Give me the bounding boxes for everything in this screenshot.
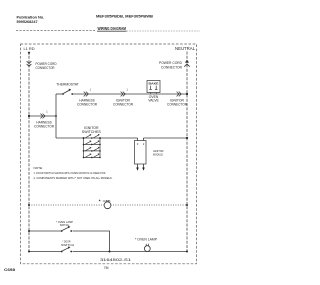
svg-text:BAKE: BAKE <box>149 81 159 85</box>
ignitor switch ladder rails <box>83 137 101 157</box>
svg-text:THERMOSTAT: THERMOSTAT <box>56 82 79 86</box>
ignitor connector 1 <box>113 88 134 106</box>
svg-text:MODULE: MODULE <box>153 153 163 157</box>
svg-text:SWITCH: SWITCH <box>61 243 74 247</box>
ignitor switches label <box>82 126 101 134</box>
oven lamp switch S1 <box>56 220 73 232</box>
svg-text:1: 1 <box>46 110 48 113</box>
svg-text:CONNECTOR: CONNECTOR <box>113 103 134 107</box>
svg-text:NOTE:: NOTE: <box>34 166 44 170</box>
diagram frame <box>21 44 197 264</box>
svg-text:VALVE: VALVE <box>148 99 159 103</box>
note text <box>34 166 113 180</box>
ignitor switch row 2 <box>83 140 101 145</box>
svg-text:L1 RD: L1 RD <box>24 47 35 51</box>
ignitor switch row 3 <box>83 147 101 152</box>
wire oven lamp switch rung <box>28 230 110 252</box>
power cord connector left <box>27 61 57 70</box>
ignitor switch row 4 <box>83 153 101 158</box>
svg-text:5995268247: 5995268247 <box>17 20 38 24</box>
ignitor switch row 1 <box>83 134 101 139</box>
wire ignitor switch line <box>56 137 187 139</box>
header model numbers <box>96 15 153 19</box>
svg-text:2. COMPONENTS MARKED WITH * NO: 2. COMPONENTS MARKED WITH * NOT USED ON … <box>34 176 113 180</box>
wire door switch rung <box>28 251 188 253</box>
harness connector (main) <box>34 110 55 128</box>
spark electrodes <box>136 164 145 171</box>
svg-text:3164502-S1: 3164502-S1 <box>100 258 131 262</box>
harness connector (top line) <box>77 88 98 106</box>
svg-text:CONNECTOR: CONNECTOR <box>167 103 188 107</box>
svg-text:CONNECTOR: CONNECTOR <box>34 125 55 129</box>
svg-text:1: 1 <box>126 88 128 91</box>
junction top line / neutral rail <box>186 93 188 95</box>
svg-text:7M: 7M <box>104 266 109 270</box>
junction ignitor line / neutral rail <box>186 137 188 139</box>
wire clock line (dotted) <box>28 204 188 206</box>
svg-text:NEUTRAL: NEUTRAL <box>175 46 196 51</box>
door switch S2 <box>61 239 74 252</box>
svg-text:CONNECTOR: CONNECTOR <box>36 66 56 70</box>
power cord connector right <box>159 60 190 70</box>
wire left vertical branch node <box>55 94 57 138</box>
svg-text:CONNECTOR: CONNECTOR <box>161 65 183 69</box>
wire left L1 rail <box>28 52 31 252</box>
ignitor module U1 <box>135 138 164 164</box>
svg-text:1: 1 <box>90 88 92 91</box>
header title WIRING DIAGRAM <box>16 26 200 31</box>
svg-text:SWITCH: SWITCH <box>60 223 69 227</box>
svg-text:* OVEN LAMP: * OVEN LAMP <box>135 238 157 242</box>
thermostat <box>56 82 79 95</box>
header publication number <box>17 16 45 24</box>
wire right neutral rail <box>186 52 188 252</box>
clock M1 <box>99 199 111 209</box>
svg-text:MEF305PBDB, MEF305PBWB: MEF305PBDB, MEF305PBWB <box>96 15 153 19</box>
wire top ignitor line <box>56 93 187 95</box>
svg-text:WIRING DIAGRAM: WIRING DIAGRAM <box>98 26 127 31</box>
svg-text:1. DOOR SWITCH SHOWN WITH OVEN: 1. DOOR SWITCH SHOWN WITH OVEN DOOR IN C… <box>34 171 107 175</box>
wire harness branch <box>28 115 57 117</box>
svg-text:*: * <box>99 199 101 204</box>
svg-text:CONNECTOR: CONNECTOR <box>77 103 98 107</box>
svg-text:C698: C698 <box>4 268 15 272</box>
oven valve <box>147 81 160 103</box>
oven lamp DS1 <box>135 238 157 252</box>
svg-text:SWITCHES: SWITCHES <box>82 130 101 134</box>
ignitor connector 2 <box>167 92 188 107</box>
